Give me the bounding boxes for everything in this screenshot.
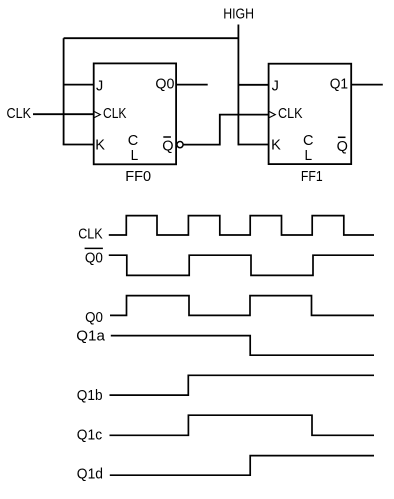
- wire: FF0 K input: [63, 144, 94, 146]
- wire: FF1 K input: [238, 144, 268, 146]
- flip-flop FF0 box: [94, 63, 176, 164]
- svg-text:Q0: Q0: [85, 250, 103, 266]
- svg-text:J: J: [96, 79, 103, 95]
- waveform Q1c: [110, 415, 375, 435]
- svg-text:CLK: CLK: [278, 106, 303, 122]
- svg-text:FF1: FF1: [301, 169, 323, 185]
- wire: FF0 J/K tie vertical: [63, 38, 65, 144]
- waveform Q1a: [111, 336, 374, 356]
- wire: FF0 Q-bar to FF1 CLK: [183, 115, 269, 145]
- wire: FF1 J input: [238, 84, 268, 86]
- svg-text:HIGH: HIGH: [223, 6, 254, 22]
- svg-text:J: J: [272, 79, 279, 95]
- svg-text:Q1a: Q1a: [76, 328, 106, 344]
- svg-text:CLK: CLK: [78, 226, 103, 242]
- flip-flop FF1 box: [269, 64, 352, 164]
- svg-text:C: C: [303, 133, 313, 149]
- wire: CLK input to FF0: [33, 113, 94, 115]
- wire: Q1 output stub: [351, 84, 383, 86]
- FF0 Q-bar overline: [163, 136, 171, 138]
- wire: Q0 output stub: [176, 84, 208, 86]
- svg-text:Q: Q: [337, 139, 348, 155]
- waveform Q0-bar: [109, 255, 374, 275]
- svg-text:Q1: Q1: [330, 77, 348, 93]
- svg-text:K: K: [271, 138, 281, 154]
- FF0 clock edge triangle: [94, 111, 100, 117]
- wire: HIGH net vertical drop: [237, 25, 239, 146]
- svg-text:L: L: [131, 148, 139, 164]
- svg-text:Q1c: Q1c: [77, 427, 102, 443]
- svg-text:Q: Q: [162, 138, 173, 154]
- FF0 inverted output bubble: [177, 142, 183, 148]
- FF1 clock edge triangle: [269, 111, 275, 117]
- FF1 Q-bar overline: [338, 136, 346, 138]
- svg-text:K: K: [95, 138, 105, 154]
- svg-text:Q0: Q0: [85, 310, 103, 326]
- svg-text:Q1d: Q1d: [77, 466, 103, 482]
- timing label Q0-bar overline: [85, 247, 103, 249]
- svg-text:L: L: [305, 148, 313, 164]
- waveform Q0: [110, 296, 374, 316]
- svg-text:CLK: CLK: [7, 106, 32, 122]
- svg-text:FF0: FF0: [125, 169, 151, 185]
- wire: FF0 J input: [64, 84, 94, 86]
- svg-text:Q0: Q0: [155, 77, 174, 93]
- waveform CLK: [109, 216, 374, 235]
- svg-text:Q1b: Q1b: [77, 388, 103, 404]
- wire: HIGH net top run to FF0: [64, 37, 239, 39]
- waveform Q1b: [110, 375, 375, 395]
- svg-text:CLK: CLK: [103, 106, 127, 122]
- svg-text:C: C: [128, 133, 138, 149]
- waveform Q1d: [110, 456, 374, 476]
